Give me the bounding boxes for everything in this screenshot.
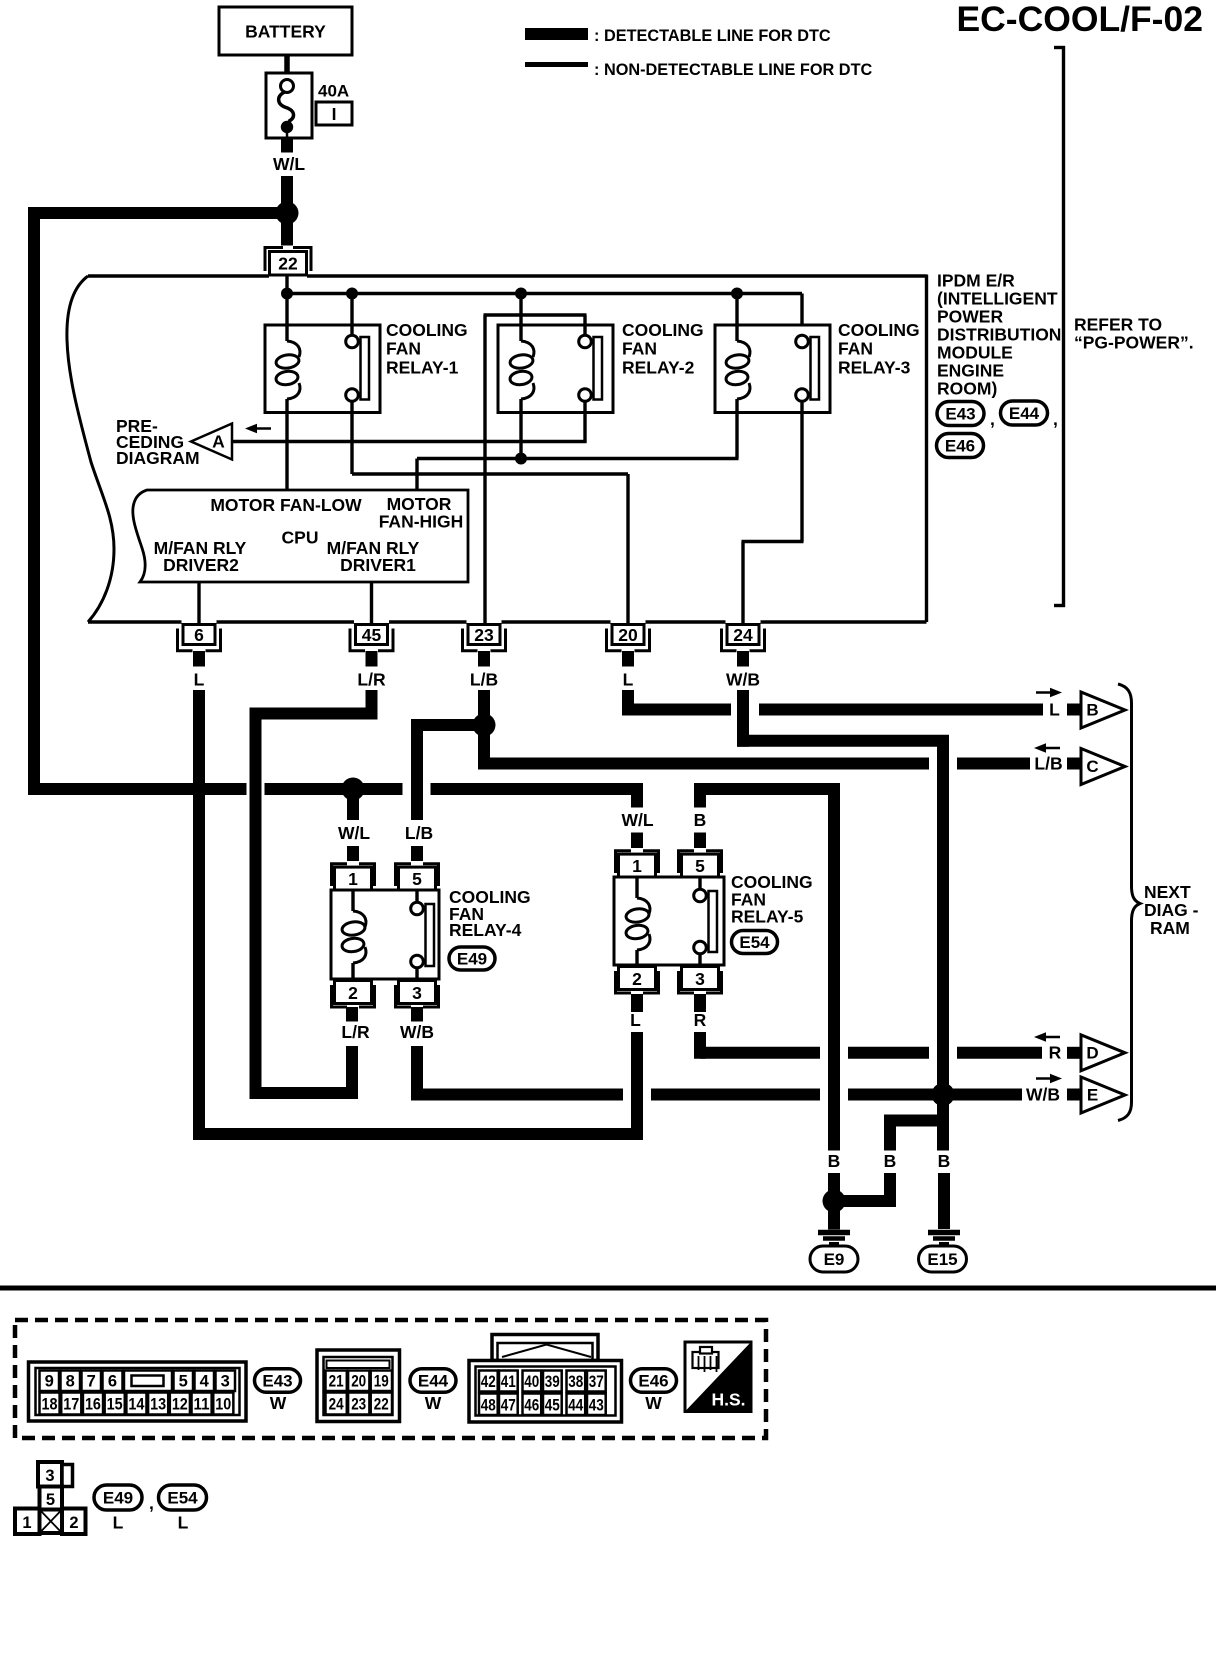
svg-text:24: 24 xyxy=(329,1396,345,1414)
relay-1 coil wire from bus xyxy=(285,294,288,342)
svg-text:5: 5 xyxy=(179,1373,188,1391)
off-page connector B xyxy=(1081,692,1125,728)
wire to E15 ground xyxy=(938,1173,950,1229)
wire stub at connector B xyxy=(1067,704,1081,716)
svg-text:E9: E9 xyxy=(824,1250,845,1269)
label IPDM E/R block name xyxy=(937,271,1061,399)
relay-5 contact xyxy=(694,889,707,902)
svg-text:ENGINE: ENGINE xyxy=(937,361,1004,381)
svg-text:11: 11 xyxy=(194,1396,210,1414)
junction node battery feed xyxy=(276,202,299,225)
label PRECEDING DIAGRAM xyxy=(116,416,200,468)
wire junction down to IPDM pin 22 xyxy=(281,213,293,246)
arrow direction from next diagram C xyxy=(1034,743,1060,753)
svg-text:E44: E44 xyxy=(418,1372,449,1391)
svg-text:L/B: L/B xyxy=(470,670,498,690)
svg-text:1: 1 xyxy=(22,1514,31,1532)
relay-3 contact xyxy=(796,335,809,348)
off-page connector C xyxy=(1081,749,1125,785)
svg-text:POWER: POWER xyxy=(937,307,1003,327)
svg-text:L: L xyxy=(630,1010,641,1030)
arrow direction to preceding diagram xyxy=(245,424,271,434)
svg-text:5: 5 xyxy=(412,869,422,889)
fuse slot label I xyxy=(316,102,352,125)
relay-1 coil wire to CPU MOTOR FAN-LOW xyxy=(285,399,288,490)
connector designator E43 xyxy=(255,1369,301,1393)
wire W/L fuse to junction xyxy=(281,138,293,153)
wire L/R pin 45 to relay-4 pin 2 xyxy=(250,690,378,1099)
relay K2 COOLING FAN RELAY-2 xyxy=(484,294,614,625)
svg-text:E54: E54 xyxy=(167,1489,198,1508)
connector view E46 pin grid xyxy=(469,1335,622,1423)
relay-4 contact exit wire xyxy=(415,968,418,980)
wire battery to fuse xyxy=(284,55,290,74)
relay-4 contact wire xyxy=(415,890,418,903)
relay-3 coil wire from bus xyxy=(735,294,738,342)
svg-text:DIAGRAM: DIAGRAM xyxy=(116,448,200,468)
wire stub below pin 23 xyxy=(478,651,490,667)
ground E15 xyxy=(919,1233,967,1273)
relay-1 contact output wire xyxy=(350,402,353,475)
wire stub relay-5 pin 5 xyxy=(694,833,706,849)
svg-text:21: 21 xyxy=(329,1373,344,1391)
svg-text:L: L xyxy=(1049,700,1060,720)
svg-text:: NON-DETECTABLE LINE FOR DTC: : NON-DETECTABLE LINE FOR DTC xyxy=(594,61,873,79)
svg-text:43: 43 xyxy=(589,1397,604,1415)
wire L pin 20 to connector B xyxy=(622,690,1043,716)
svg-text:44: 44 xyxy=(568,1397,584,1415)
svg-text:COOLING: COOLING xyxy=(386,320,468,340)
svg-text:2: 2 xyxy=(348,983,358,1003)
relay-3 contact output wire to pin 24 xyxy=(742,402,804,625)
svg-text:E49: E49 xyxy=(103,1489,133,1508)
svg-text:B: B xyxy=(1086,701,1098,720)
svg-text:W/B: W/B xyxy=(726,670,760,690)
wire junction left and down to W/L rail xyxy=(34,207,293,789)
connector designator E54 xyxy=(732,931,778,954)
relay-1 contact xyxy=(346,335,359,348)
svg-text:1: 1 xyxy=(632,856,642,876)
battery xyxy=(219,7,352,55)
svg-text:39: 39 xyxy=(545,1373,560,1391)
svg-text:W/L: W/L xyxy=(273,154,305,174)
svg-text:40A: 40A xyxy=(318,82,349,101)
E43 bottom row pins xyxy=(40,1393,60,1415)
svg-text:6: 6 xyxy=(108,1373,117,1391)
svg-text:7: 7 xyxy=(87,1373,96,1391)
wire pin 22 to internal bus xyxy=(285,275,288,294)
relay terminal layout view E49 E54 xyxy=(15,1462,86,1534)
svg-text:MOTOR FAN-LOW: MOTOR FAN-LOW xyxy=(210,495,362,515)
label COOLING FAN RELAY-5 xyxy=(731,872,813,927)
bus junction node relay-1 contact xyxy=(346,288,358,300)
relay-2 coil xyxy=(521,341,534,357)
svg-text:W/L: W/L xyxy=(338,823,370,843)
relay-2 coil wire from bus xyxy=(519,294,522,342)
svg-text:23: 23 xyxy=(474,625,494,645)
svg-text:17: 17 xyxy=(63,1396,79,1414)
svg-text:45: 45 xyxy=(362,625,382,645)
label COOLING FAN RELAY-3 xyxy=(838,320,920,377)
svg-text:E43: E43 xyxy=(262,1372,292,1391)
svg-text:1: 1 xyxy=(348,869,358,889)
svg-text:EC-COOL/F-02: EC-COOL/F-02 xyxy=(956,0,1203,39)
wire L pin 6 to relay-5 pin 2 xyxy=(193,690,643,1140)
wire relay-1 contact to pin 20 xyxy=(352,474,628,625)
svg-text:40: 40 xyxy=(524,1373,539,1391)
relay-5 pin 2 xyxy=(616,971,632,993)
svg-text:W: W xyxy=(270,1393,287,1413)
svg-text:23: 23 xyxy=(351,1396,366,1414)
svg-text:FAN: FAN xyxy=(838,339,873,359)
relay-3 coil xyxy=(737,341,750,357)
svg-text:DISTRIBUTION: DISTRIBUTION xyxy=(937,325,1061,345)
wire MOTOR FAN-HIGH to relay-2 and relay-3 coils xyxy=(417,459,739,491)
svg-text:20: 20 xyxy=(618,625,638,645)
label COOLING FAN RELAY-2 xyxy=(622,320,704,377)
svg-text:(INTELLIGENT: (INTELLIGENT xyxy=(937,289,1058,309)
wire L/B junction to connector C xyxy=(484,725,1030,770)
svg-text:L: L xyxy=(178,1513,189,1533)
relay-5 contact wire xyxy=(698,877,701,890)
svg-text:ROOM): ROOM) xyxy=(937,379,997,399)
svg-text:W/L: W/L xyxy=(621,810,653,830)
relay-4 coil exit wire xyxy=(351,963,354,979)
svg-text:3: 3 xyxy=(45,1467,54,1485)
label NEXT DIAGRAM xyxy=(1144,882,1199,938)
relay-4 pin 5 xyxy=(396,864,412,886)
arrow direction to next diagram B xyxy=(1036,688,1062,698)
arrow direction from next diagram D xyxy=(1034,1032,1060,1042)
svg-text:DRIVER2: DRIVER2 xyxy=(163,555,239,575)
svg-text:41: 41 xyxy=(501,1373,516,1391)
wire W/L rail to cooling fan relays 4 and 5 xyxy=(28,789,643,808)
wire L/B junction to relay-4 pin 5 xyxy=(411,725,484,820)
svg-text:5: 5 xyxy=(46,1491,55,1509)
svg-text:9: 9 xyxy=(45,1373,54,1391)
junction node ground E9 xyxy=(823,1190,846,1213)
relay-4 contact xyxy=(411,902,424,915)
relay-4 body xyxy=(331,890,439,979)
wire node A line to relay-2 contact xyxy=(232,440,587,443)
ground E9 xyxy=(810,1201,858,1272)
svg-text:14: 14 xyxy=(128,1396,145,1414)
connector view E43 pin grid xyxy=(29,1362,247,1421)
svg-text:L/B: L/B xyxy=(405,823,433,843)
relay-5 pin 5 xyxy=(679,851,695,873)
connector designator E54 xyxy=(159,1485,207,1510)
relay-5 contact exit wire xyxy=(698,954,701,966)
off-page connector D xyxy=(1081,1035,1125,1071)
CPU block xyxy=(133,490,468,582)
svg-text:FAN: FAN xyxy=(622,339,657,359)
wire W/B relay-4 pin 3 to connector E xyxy=(417,1007,1022,1101)
arrow direction to next diagram E xyxy=(1036,1074,1062,1084)
wire B relay-5 pin 5 to ground rail xyxy=(694,783,834,1151)
svg-text:RELAY-5: RELAY-5 xyxy=(731,907,804,927)
svg-text:3: 3 xyxy=(412,983,422,1003)
wire stub at connector E xyxy=(1067,1089,1081,1101)
junction node relay-2 coil drive xyxy=(515,453,527,465)
connector designator E49 xyxy=(449,947,495,970)
relay K4 COOLING FAN RELAY-4 xyxy=(331,864,439,1007)
wire stub relay-5 pin 2 xyxy=(631,994,643,1012)
svg-text:8: 8 xyxy=(66,1373,75,1391)
svg-text:W: W xyxy=(645,1393,662,1413)
svg-text:4: 4 xyxy=(200,1373,210,1391)
wire stub relay-4 pin 2 xyxy=(346,1007,358,1022)
svg-text:FAN-HIGH: FAN-HIGH xyxy=(379,512,464,532)
relay-4 pin 3 xyxy=(396,985,412,1007)
wire stub below pin 6 xyxy=(193,651,205,667)
wire B to E9 junction xyxy=(828,1173,840,1201)
svg-text:B: B xyxy=(938,1151,951,1171)
connector designator E44 xyxy=(410,1369,456,1393)
connector designator E46 xyxy=(937,434,984,458)
svg-text:L: L xyxy=(113,1513,124,1533)
svg-text:REFER TO: REFER TO xyxy=(1074,315,1162,335)
svg-text:42: 42 xyxy=(481,1373,496,1391)
svg-text:: DETECTABLE LINE FOR DTC: : DETECTABLE LINE FOR DTC xyxy=(594,27,831,45)
svg-text:12: 12 xyxy=(172,1396,188,1414)
wire middle branch to E9 junction xyxy=(828,1173,896,1201)
pin 45 connector (IPDM E/R) xyxy=(350,625,393,651)
connector designator E49 xyxy=(94,1485,142,1510)
svg-text:22: 22 xyxy=(374,1396,389,1414)
svg-text:16: 16 xyxy=(85,1396,101,1414)
svg-text:L/R: L/R xyxy=(341,1022,370,1042)
svg-text:,: , xyxy=(1053,409,1058,429)
svg-text:E: E xyxy=(1087,1086,1098,1105)
svg-text:DRIVER1: DRIVER1 xyxy=(340,555,416,575)
svg-text:24: 24 xyxy=(733,625,753,645)
junction node L/B xyxy=(473,714,496,737)
svg-text:RELAY-2: RELAY-2 xyxy=(622,357,695,377)
pin 6 connector (IPDM E/R) xyxy=(178,625,221,651)
svg-text:W/B: W/B xyxy=(400,1022,434,1042)
legend non-detectable line for DTC xyxy=(525,61,873,79)
svg-text:47: 47 xyxy=(501,1397,516,1415)
connector views dashed frame xyxy=(15,1320,766,1438)
junction node W/L relay-4 xyxy=(342,778,365,801)
svg-text:18: 18 xyxy=(42,1396,58,1414)
wire stub relay-4 pin 5 xyxy=(411,846,423,861)
wire stub at connector C xyxy=(1067,758,1081,770)
svg-text:19: 19 xyxy=(374,1373,389,1391)
relay-5 pin 1 xyxy=(616,851,632,873)
svg-text:2: 2 xyxy=(69,1514,78,1532)
H.S. connector icon xyxy=(693,1347,719,1372)
bus junction node relay-1 coil xyxy=(281,288,293,300)
svg-text:DIAG -: DIAG - xyxy=(1144,900,1199,920)
relay-2 contact xyxy=(579,335,592,348)
svg-text:L: L xyxy=(623,670,634,690)
wire stub below pin 24 xyxy=(737,651,749,667)
svg-text:E46: E46 xyxy=(638,1372,668,1391)
label COOLING FAN RELAY-4 xyxy=(449,887,531,940)
relay-2 coil wire to MOTOR FAN-HIGH node xyxy=(519,399,522,459)
brace next diagram xyxy=(1118,684,1140,1121)
wire ground branch middle xyxy=(884,1115,949,1151)
relay-2 contact wire to node A line xyxy=(583,402,586,444)
wire W/B pin 24 to ground junction xyxy=(737,690,949,1095)
relay K5 COOLING FAN RELAY-5 xyxy=(614,851,724,993)
bracket refer to PG-POWER xyxy=(1054,46,1065,607)
legend detectable line for DTC xyxy=(525,27,831,45)
pin 24 connector (IPDM E/R) xyxy=(722,625,765,651)
svg-text:C: C xyxy=(1086,757,1098,776)
svg-text:48: 48 xyxy=(481,1397,496,1415)
relay-4 pin 2 xyxy=(332,985,348,1007)
wire stub relay-4 pin 1 xyxy=(347,846,359,861)
pin 20 connector (IPDM E/R) xyxy=(607,625,650,651)
svg-text:MODULE: MODULE xyxy=(937,343,1013,363)
svg-text:COOLING: COOLING xyxy=(838,320,920,340)
relay K1 COOLING FAN RELAY-1 xyxy=(265,294,380,491)
label COOLING FAN RELAY-1 xyxy=(386,320,468,377)
relay K3 COOLING FAN RELAY-3 xyxy=(715,294,830,625)
IPDM E/R enclosure box xyxy=(67,275,927,623)
svg-text:A: A xyxy=(212,432,225,452)
relay-1 contact wire from bus xyxy=(350,294,353,336)
svg-text:B: B xyxy=(694,810,707,830)
wire CPU M/FAN RLY DRIVER1 to pin 45 xyxy=(370,582,373,625)
relay-5 pin 3 xyxy=(679,971,695,993)
relay-5 coil wire xyxy=(635,877,638,898)
svg-text:,: , xyxy=(149,1493,154,1513)
svg-text:W: W xyxy=(425,1393,442,1413)
pin 22 connector (IPDM E/R) xyxy=(265,248,311,276)
svg-text:BATTERY: BATTERY xyxy=(245,22,326,42)
relay-1 coil xyxy=(287,341,300,357)
E43 empty slot xyxy=(124,1371,172,1392)
svg-text:RELAY-3: RELAY-3 xyxy=(838,357,911,377)
svg-text:5: 5 xyxy=(695,856,705,876)
svg-text:CPU: CPU xyxy=(282,528,319,548)
separator rule xyxy=(0,1286,1216,1291)
internal power bus xyxy=(287,294,802,336)
svg-text:13: 13 xyxy=(150,1396,166,1414)
fuse 40A xyxy=(266,73,312,138)
svg-text:E46: E46 xyxy=(945,437,975,456)
junction node W/B ground feed xyxy=(932,1083,955,1106)
wire R relay-5 pin 3 to connector D xyxy=(700,994,1042,1059)
relay-5 coil xyxy=(637,898,650,914)
svg-text:RAM: RAM xyxy=(1150,918,1190,938)
pin 23 connector (IPDM E/R) xyxy=(463,625,506,651)
svg-text:3: 3 xyxy=(221,1373,230,1391)
wire L/B pin 23 to junction xyxy=(478,690,490,725)
connector designator E44 xyxy=(1001,401,1048,425)
svg-text:E44: E44 xyxy=(1009,404,1040,423)
svg-text:B: B xyxy=(828,1151,841,1171)
wire stub below pin 45 xyxy=(366,651,378,667)
svg-text:B: B xyxy=(884,1151,897,1171)
svg-text:NEXT: NEXT xyxy=(1144,882,1191,902)
relay-4 coil xyxy=(353,911,366,927)
wire CPU M/FAN RLY DRIVER2 to pin 6 xyxy=(197,582,200,625)
svg-text:W/B: W/B xyxy=(1026,1085,1060,1105)
relay-4 pin 1 xyxy=(332,864,348,886)
relay-5 coil exit wire xyxy=(635,950,638,965)
svg-text:R: R xyxy=(694,1010,707,1030)
svg-text:6: 6 xyxy=(194,625,204,645)
svg-text:I: I xyxy=(332,104,337,124)
H.S. hand symbol badge xyxy=(685,1342,751,1412)
wire stub at connector D xyxy=(1067,1047,1081,1059)
svg-text:38: 38 xyxy=(568,1373,583,1391)
connector designator E43 xyxy=(937,402,984,426)
off-page connector A xyxy=(191,424,232,460)
wire ground branch E15 xyxy=(937,1095,949,1151)
svg-text:3: 3 xyxy=(695,969,705,989)
bus junction node relay-2 coil xyxy=(515,288,527,300)
svg-text:E43: E43 xyxy=(945,405,975,424)
label REFER TO PG-POWER xyxy=(1074,315,1194,353)
svg-text:2: 2 xyxy=(632,969,642,989)
svg-text:E54: E54 xyxy=(739,933,770,952)
svg-text:15: 15 xyxy=(107,1396,123,1414)
relay-2 contact wire to pin 23 xyxy=(484,315,587,625)
relay-5 body xyxy=(614,877,724,965)
connector designator E46 xyxy=(631,1369,677,1393)
svg-text:RELAY-4: RELAY-4 xyxy=(449,920,522,940)
wire stub relay-5 pin 1 xyxy=(631,833,643,849)
svg-text:L/B: L/B xyxy=(1034,754,1062,774)
relay-4 coil wire xyxy=(351,890,354,911)
svg-text:COOLING: COOLING xyxy=(622,320,704,340)
wire stub below pin 20 xyxy=(622,651,634,667)
off-page connector E xyxy=(1081,1077,1125,1113)
svg-text:E49: E49 xyxy=(457,950,487,969)
svg-text:RELAY-1: RELAY-1 xyxy=(386,357,459,377)
svg-text:L: L xyxy=(194,670,205,690)
connector view E44 pin grid xyxy=(317,1350,400,1422)
svg-text:D: D xyxy=(1086,1043,1098,1062)
svg-text:FAN: FAN xyxy=(386,339,421,359)
svg-text:46: 46 xyxy=(524,1397,539,1415)
svg-text:H.S.: H.S. xyxy=(711,1390,745,1410)
bus junction node relay-3 coil xyxy=(731,288,743,300)
svg-text:20: 20 xyxy=(351,1373,366,1391)
wire W/L junction to relay-4 pin 1 xyxy=(347,789,359,820)
svg-text:,: , xyxy=(990,409,995,429)
svg-text:R: R xyxy=(1049,1043,1062,1063)
wire W/L continues xyxy=(281,176,293,213)
svg-text:22: 22 xyxy=(278,254,298,274)
svg-text:“PG-POWER”.: “PG-POWER”. xyxy=(1074,333,1194,353)
svg-text:IPDM E/R: IPDM E/R xyxy=(937,271,1015,291)
svg-text:10: 10 xyxy=(215,1396,231,1414)
svg-text:L/R: L/R xyxy=(357,670,386,690)
relay-3 coil wire to MOTOR FAN-HIGH line xyxy=(735,399,738,459)
svg-text:E15: E15 xyxy=(927,1250,957,1269)
svg-text:45: 45 xyxy=(545,1397,560,1415)
svg-text:37: 37 xyxy=(589,1373,604,1391)
